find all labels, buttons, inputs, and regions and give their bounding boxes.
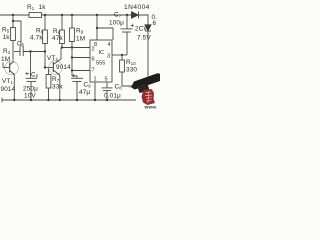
svg-text:VT2: VT2	[47, 55, 58, 62]
resistor R1	[29, 13, 42, 18]
svg-text:C5: C5	[17, 41, 25, 48]
resistor R8	[60, 30, 65, 44]
wire pin5	[106, 82, 108, 88]
wire pin1 to rail	[94, 82, 96, 100]
wire base VT2	[45, 67, 53, 69]
wire R7 to rail	[48, 88, 50, 100]
wire R10 top	[121, 55, 123, 60]
svg-text:3: 3	[107, 54, 110, 60]
svg-text:1: 1	[94, 77, 97, 83]
wire VT1 emitter to ground rail	[13, 74, 15, 100]
svg-text:47k: 47k	[52, 35, 63, 42]
svg-text:R7: R7	[52, 76, 60, 83]
svg-text:R9: R9	[76, 28, 84, 35]
svg-text:330: 330	[126, 67, 137, 74]
svg-text:C7: C7	[114, 12, 122, 19]
capacitor C9	[72, 76, 77, 78]
resistor R9	[70, 28, 75, 42]
node rail R6	[44, 14, 46, 16]
svg-text:4: 4	[108, 42, 111, 48]
capacitor C7	[126, 15, 128, 29]
svg-text:1k: 1k	[39, 4, 47, 11]
capacitor C8	[102, 87, 113, 89]
svg-text:C9: C9	[84, 82, 92, 89]
svg-text:1k: 1k	[3, 34, 11, 41]
labels	[1, 4, 158, 100]
wire R7 tap	[48, 68, 50, 75]
wire zener to speaker	[147, 31, 149, 78]
svg-text:33k: 33k	[52, 84, 63, 91]
capacitor C6	[30, 52, 32, 79]
svg-text:7.5V: 7.5V	[137, 35, 151, 42]
node rail C7	[126, 14, 128, 16]
resistor R10	[120, 60, 125, 72]
wire pin2	[62, 47, 90, 49]
wire VT2 emitter to rail	[59, 75, 61, 100]
transistor VT1	[5, 61, 19, 75]
node gnd R7	[47, 99, 49, 101]
wire pin8	[96, 15, 98, 40]
svg-text:9014: 9014	[1, 86, 16, 93]
wire R6 bottom	[44, 44, 46, 68]
wire R10 to speaker	[122, 72, 135, 86]
wire R5 to VT1 collector	[12, 41, 14, 61]
svg-text:VT1: VT1	[2, 78, 13, 85]
wire C5 to R6 node	[24, 51, 46, 53]
wire VT2 collector riser	[60, 48, 62, 60]
IC pin labels	[92, 42, 111, 83]
capacitor C5	[19, 47, 21, 57]
svg-text:WWW.: WWW.	[145, 105, 158, 110]
wire R8 bottom to pin2 net	[61, 44, 63, 48]
svg-text:1M: 1M	[1, 56, 10, 63]
wire R9 bottom / pins 2-6-7 column	[71, 42, 73, 77]
svg-text:C6: C6	[31, 72, 39, 79]
svg-text:4.7k: 4.7k	[30, 35, 43, 42]
svg-text:C8: C8	[115, 84, 123, 91]
wire pin7	[72, 70, 90, 72]
svg-text:6: 6	[153, 20, 157, 27]
watermark logo black	[128, 73, 160, 93]
wire pin3 output	[112, 54, 127, 56]
wire pin4	[97, 28, 113, 40]
zener diode 2CW 7.5V	[145, 25, 151, 31]
wire top rail right	[139, 15, 149, 25]
node R10 tap	[121, 54, 123, 56]
node rail R8	[61, 14, 63, 16]
node pin6	[71, 56, 73, 58]
svg-text:R6: R6	[36, 28, 44, 35]
node gnd C9	[76, 99, 78, 101]
transistor VT2	[49, 61, 63, 75]
svg-text:IC: IC	[99, 50, 105, 56]
wire top rail left	[0, 14, 29, 16]
svg-text:5: 5	[105, 77, 108, 83]
diode VD 1N4004	[132, 12, 139, 18]
wire left drop	[12, 15, 14, 28]
svg-text:555: 555	[96, 61, 105, 67]
node gnd VT2	[59, 99, 61, 101]
svg-text:2CW: 2CW	[135, 26, 150, 33]
node A	[12, 20, 14, 22]
resistor R6	[43, 30, 48, 44]
wire R8 top	[61, 15, 63, 30]
svg-text:R5: R5	[2, 27, 10, 34]
IC 555 box	[90, 40, 112, 82]
svg-text:100μ: 100μ	[109, 20, 124, 27]
node pin4 tee	[96, 27, 98, 29]
node rail R9	[71, 14, 73, 16]
svg-text:1N4004: 1N4004	[124, 4, 150, 11]
resistor R7	[46, 75, 51, 89]
wire pin6	[72, 57, 90, 59]
svg-text:7: 7	[92, 68, 95, 74]
watermark seal red	[142, 89, 158, 110]
svg-text:47μ: 47μ	[79, 89, 90, 96]
node gnd pin1	[94, 99, 96, 101]
node R9 pin2	[71, 46, 73, 48]
node C6 tap	[29, 50, 31, 52]
wire ground rail	[2, 99, 136, 101]
svg-text:10V: 10V	[24, 93, 36, 100]
wire R6 top	[44, 15, 46, 30]
resistor R5	[11, 28, 16, 41]
node rail pin8	[96, 14, 98, 16]
node R6 bottom	[44, 50, 46, 52]
svg-text:R10: R10	[126, 59, 136, 66]
svg-text:2: 2	[92, 47, 95, 53]
svg-text:250μ: 250μ	[23, 86, 38, 93]
node gnd VT1	[13, 99, 15, 101]
wire R9 top	[71, 15, 73, 28]
svg-text:0.01μ: 0.01μ	[104, 93, 121, 100]
svg-text:6: 6	[92, 57, 95, 63]
node pin2 net	[61, 46, 63, 48]
node VT2 base	[44, 66, 46, 68]
wire step to C5	[13, 21, 21, 47]
node gnd C8	[106, 99, 108, 101]
node junction R5 top	[12, 14, 14, 16]
svg-text:1M: 1M	[76, 36, 85, 43]
svg-text:9014: 9014	[56, 64, 71, 71]
wire C5 stub left	[14, 51, 20, 53]
node pin7	[71, 69, 73, 71]
svg-text:R8: R8	[53, 28, 61, 35]
wire top rail middle	[42, 14, 132, 16]
node gnd C6	[30, 99, 32, 101]
svg-text:R4: R4	[3, 48, 11, 55]
terminal left	[1, 98, 3, 103]
svg-text:R1: R1	[27, 4, 35, 11]
